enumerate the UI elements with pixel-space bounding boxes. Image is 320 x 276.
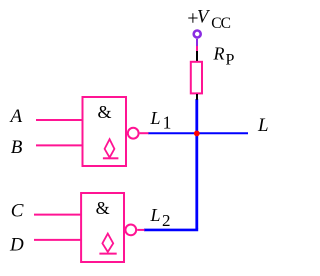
svg-text:P: P bbox=[226, 52, 235, 69]
svg-text:L: L bbox=[150, 205, 161, 225]
svg-text:B: B bbox=[11, 137, 23, 158]
svg-text:L: L bbox=[150, 108, 161, 128]
svg-text:L: L bbox=[257, 115, 269, 136]
svg-text:D: D bbox=[9, 234, 24, 255]
svg-text:&: & bbox=[96, 198, 110, 218]
svg-text:1: 1 bbox=[163, 112, 172, 132]
svg-text:C: C bbox=[11, 200, 24, 221]
svg-text:CC: CC bbox=[211, 15, 230, 32]
svg-text:&: & bbox=[98, 102, 112, 122]
svg-text:R: R bbox=[213, 43, 225, 63]
svg-text:A: A bbox=[9, 106, 23, 127]
svg-text:2: 2 bbox=[162, 211, 171, 230]
